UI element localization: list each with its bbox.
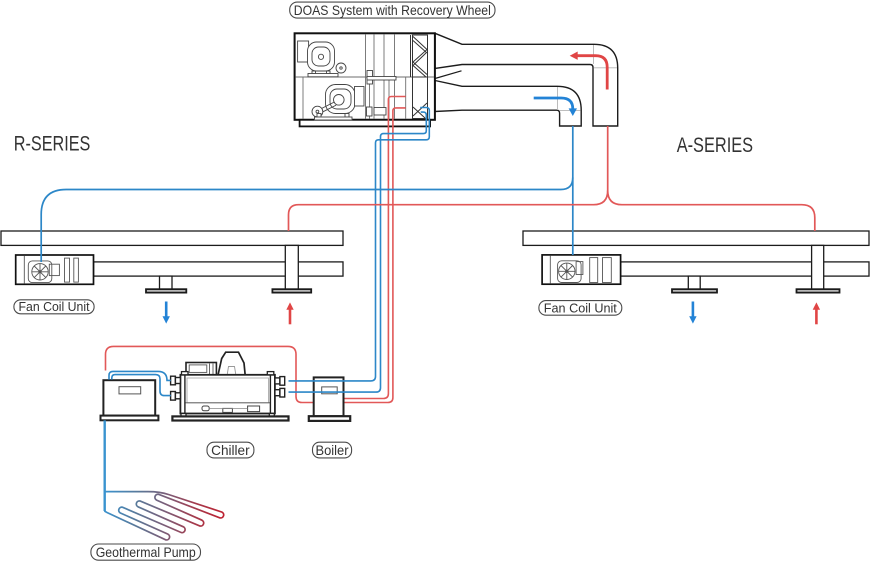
svg-text:Chiller: Chiller: [211, 442, 250, 458]
svg-text:R-SERIES: R-SERIES: [14, 133, 91, 156]
svg-text:Boiler: Boiler: [316, 442, 349, 458]
svg-text:Fan Coil Unit: Fan Coil Unit: [19, 299, 90, 314]
svg-text:Fan Coil Unit: Fan Coil Unit: [544, 300, 617, 315]
svg-text:Geothermal Pump: Geothermal Pump: [96, 545, 196, 560]
svg-text:DOAS System with Recovery Whee: DOAS System with Recovery Wheel: [294, 3, 491, 18]
svg-text:A-SERIES: A-SERIES: [677, 134, 753, 157]
